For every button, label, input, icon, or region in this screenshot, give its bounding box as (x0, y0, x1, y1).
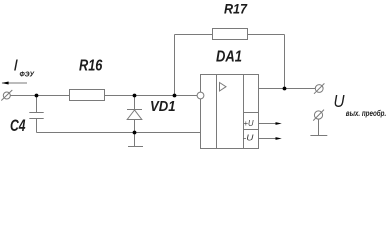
wire: op-amp output (259, 88, 316, 90)
ground under VD1 (128, 133, 143, 147)
svg-text:R17: R17 (224, 1, 248, 17)
node: output junction (283, 87, 287, 91)
resistor R17 (213, 29, 248, 40)
+U arrowhead (276, 122, 282, 125)
wire: feedback left vertical (174, 35, 176, 96)
wire: R16 to op-amp inverting input (105, 95, 198, 97)
svg-text:-U: -U (243, 133, 254, 143)
node: VD1 bottom junction (133, 131, 137, 135)
output terminal X2 (314, 83, 324, 93)
svg-text:вых. преобр.: вых. преобр. (346, 109, 386, 118)
output terminal X3 (313, 110, 324, 121)
inversion bubble on DA1 input (197, 92, 204, 99)
svg-text:DA1: DA1 (216, 49, 242, 66)
diode VD1 (127, 96, 142, 133)
svg-text:R16: R16 (79, 57, 102, 74)
input terminal X1 (1, 90, 12, 101)
svg-text:+U: +U (244, 118, 255, 128)
svg-text:C4: C4 (10, 116, 26, 135)
ground under X3 (310, 119, 327, 136)
-U arrowhead (276, 137, 282, 140)
svg-text:U: U (334, 91, 345, 111)
node: feedback junction (173, 94, 177, 98)
-U supply arrow (259, 138, 278, 140)
op-amp DA1 (201, 75, 259, 149)
svg-text:ФЭУ: ФЭУ (20, 70, 35, 79)
wire: top rail right of R17 (248, 34, 285, 36)
wire: feedback right vertical (284, 35, 286, 89)
node: VD1 top junction (133, 94, 137, 98)
input current arrow line (2, 82, 27, 84)
wire: top rail left of R17 (175, 34, 213, 36)
wire: bottom rail (37, 132, 201, 134)
svg-text:I: I (14, 57, 19, 74)
svg-text:VD1: VD1 (150, 98, 176, 115)
node: C4 junction (35, 94, 39, 98)
capacitor C4 (29, 113, 43, 133)
wire: input terminal to R16 (10, 95, 69, 97)
input current arrowhead (2, 82, 9, 85)
+U supply arrow (259, 123, 278, 125)
wire: C4 branch down (36, 96, 38, 113)
resistor R16 (70, 90, 105, 101)
